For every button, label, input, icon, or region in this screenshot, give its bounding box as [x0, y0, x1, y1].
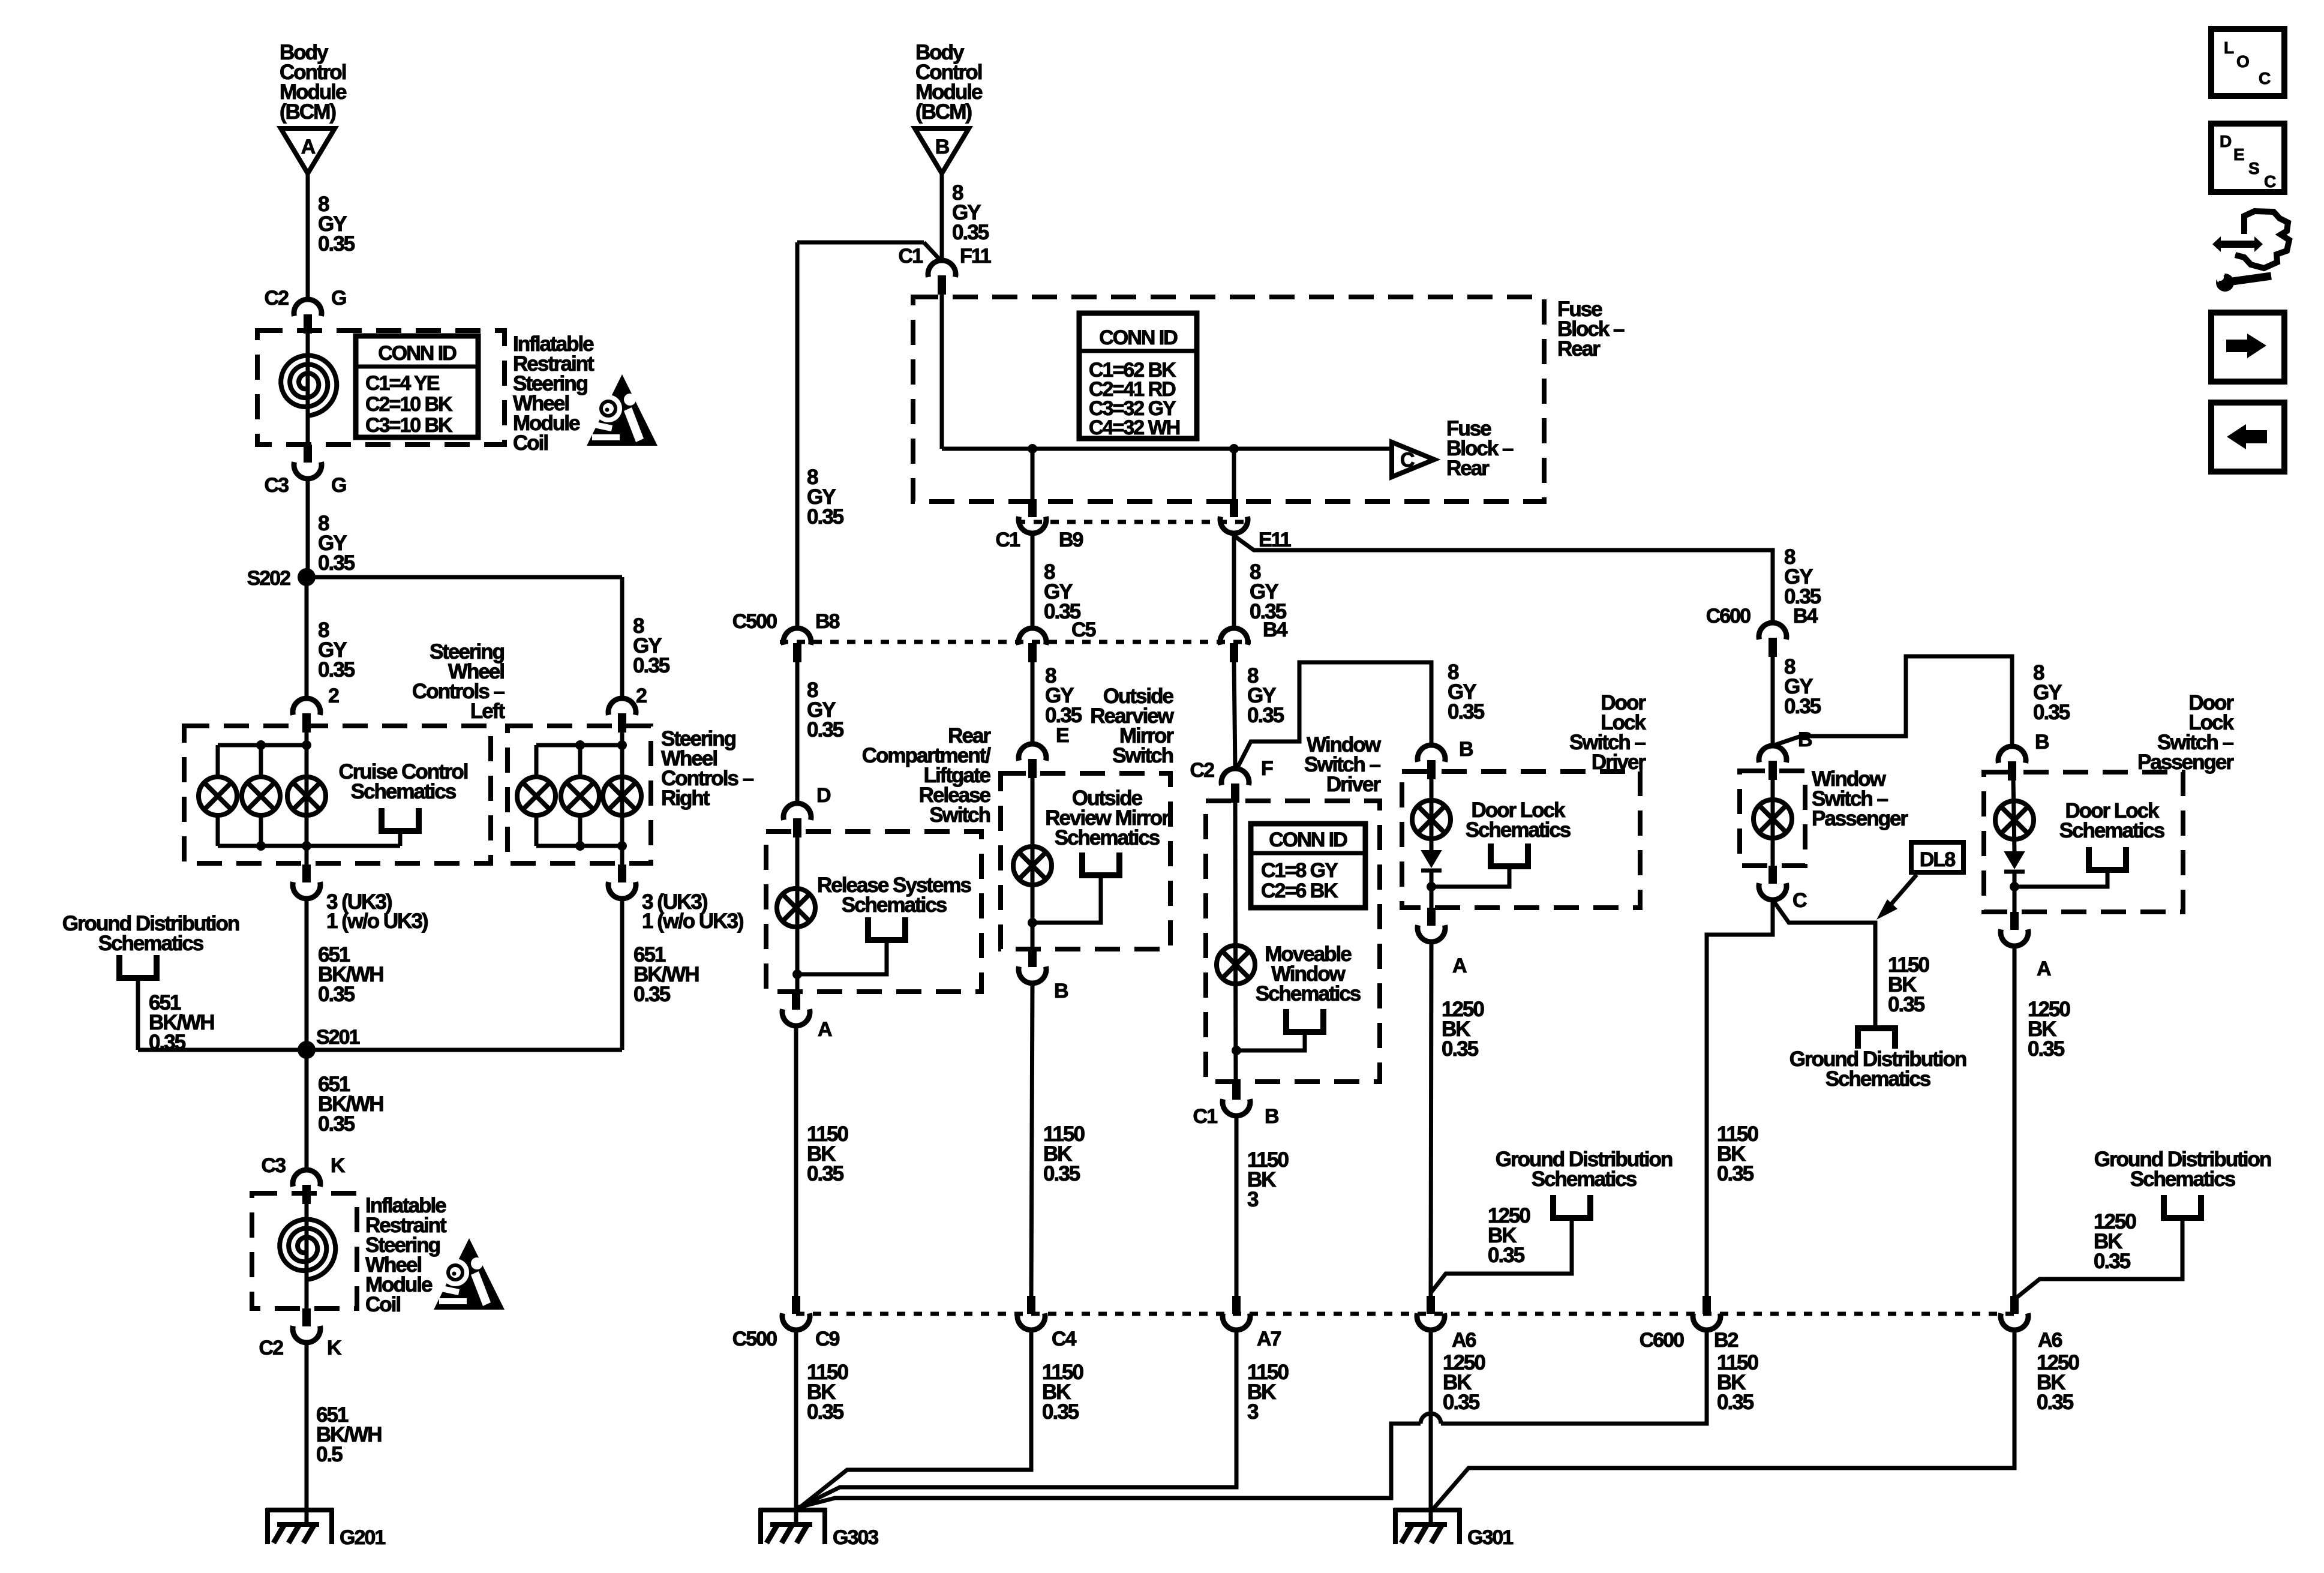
- wire B4 to B winpass: [1771, 657, 1775, 746]
- lamp SW1: [199, 777, 237, 815]
- svg-text:C1=4 YE: C1=4 YE: [365, 372, 440, 395]
- ref bracket ground mid: [1553, 1195, 1590, 1218]
- ref wire mirror: [1032, 875, 1101, 923]
- fuse block rear box: [913, 297, 1544, 502]
- svg-text:0.35: 0.35: [1043, 1162, 1080, 1185]
- connector C1 B9 (exit): [1028, 499, 1037, 517]
- svg-text:1 (w/o UK3): 1 (w/o UK3): [326, 909, 428, 933]
- icon LOC box: [2211, 29, 2284, 96]
- svg-text:0.35: 0.35: [318, 232, 355, 256]
- svg-text:S201: S201: [316, 1026, 359, 1049]
- svg-text:0.35: 0.35: [1442, 1037, 1479, 1061]
- wire ground ref down: [136, 978, 140, 1050]
- lamp door lock driver: [1412, 800, 1451, 839]
- connector C500 C9 (exit): [792, 1296, 800, 1314]
- svg-text:C2=10 BK: C2=10 BK: [365, 393, 453, 416]
- ground G201: [266, 1508, 334, 1512]
- window switch driver feed Z wire: [1236, 662, 1431, 770]
- door lock passenger box: [1984, 772, 2183, 912]
- lamp window switch passenger: [1753, 800, 1792, 838]
- clockspring coil symbol 2: [280, 1219, 335, 1280]
- airbag warning icon: [587, 374, 657, 446]
- wire S201 down: [305, 1050, 309, 1170]
- ref wire ground right: [2015, 1218, 2182, 1299]
- svg-text:S: S: [2248, 159, 2259, 178]
- svg-text:Rear: Rear: [1446, 457, 1490, 480]
- ref wire release: [797, 940, 887, 974]
- CONN ID table (fuse block): [1079, 313, 1197, 439]
- connector A DLP (exit): [2010, 912, 2019, 930]
- callout DL8 arrow: [1890, 875, 1917, 906]
- svg-text:C1: C1: [996, 529, 1020, 551]
- icon wrench: [2216, 274, 2234, 292]
- connector C3 (exit): [304, 445, 312, 463]
- wire branch to C500: [797, 241, 924, 245]
- svg-text:F11: F11: [960, 245, 991, 268]
- svg-text:B8: B8: [815, 610, 840, 633]
- svg-text:0.35: 0.35: [807, 718, 844, 742]
- svg-text:1 (w/o UK3): 1 (w/o UK3): [642, 909, 743, 933]
- ground G303: [759, 1508, 827, 1512]
- wire A7 to G303: [798, 1328, 1236, 1508]
- svg-text:C4=32 WH: C4=32 WH: [1089, 416, 1180, 439]
- svg-text:G: G: [331, 287, 346, 310]
- lamp mirror switch: [1013, 846, 1052, 885]
- svg-text:B: B: [1054, 980, 1068, 1002]
- svg-text:CONN ID: CONN ID: [378, 342, 457, 365]
- CONN ID table (coil): [356, 336, 478, 437]
- connector F (entry): [1221, 769, 1249, 785]
- wire to G201: [305, 1343, 309, 1525]
- svg-text:Schematics: Schematics: [1466, 818, 1571, 842]
- svg-text:F: F: [1261, 757, 1273, 780]
- wire through right box: [620, 733, 624, 864]
- svg-text:A6: A6: [1452, 1329, 1476, 1352]
- svg-text:0.35: 0.35: [318, 983, 355, 1006]
- steering wheel controls right box: [508, 726, 651, 863]
- wire B4 to F: [1234, 662, 1235, 769]
- svg-text:0.35: 0.35: [318, 1112, 355, 1136]
- connector A DLD (exit): [1427, 908, 1436, 926]
- wire B9 to C5: [1031, 533, 1035, 629]
- svg-text:0.35: 0.35: [2037, 1391, 2074, 1414]
- lamp door lock passenger: [1995, 801, 2034, 839]
- svg-text:0.35: 0.35: [1717, 1391, 1754, 1414]
- connector A release (exit): [792, 992, 800, 1010]
- connector row C1 rear: [1017, 520, 1251, 524]
- CONN ID table (window switch driver): [1251, 824, 1365, 908]
- connector B winpass (entry): [1759, 746, 1786, 763]
- bottom stubs: [216, 815, 220, 846]
- svg-text:CONN ID: CONN ID: [1099, 326, 1178, 349]
- svg-text:C600: C600: [1706, 605, 1750, 628]
- svg-text:Schematics: Schematics: [1256, 982, 1361, 1005]
- wire through MW box: [1235, 803, 1236, 1082]
- svg-text:B: B: [1798, 728, 1812, 751]
- svg-text:G201: G201: [340, 1526, 385, 1549]
- svg-text:Schematics: Schematics: [1532, 1167, 1637, 1191]
- svg-text:C2: C2: [265, 287, 289, 310]
- connector C winpass (exit): [1768, 866, 1777, 884]
- svg-text:0.35: 0.35: [1488, 1244, 1525, 1267]
- connector row C500/C600 bottom: [796, 1312, 2014, 1316]
- svg-text:O: O: [2236, 52, 2249, 71]
- svg-text:B4: B4: [1793, 605, 1818, 628]
- lamp SW3: [287, 777, 326, 815]
- svg-text:C2=6 BK: C2=6 BK: [1261, 879, 1338, 902]
- airbag warning icon 2: [434, 1238, 505, 1310]
- lamp SWR2: [561, 777, 599, 815]
- connector C2 K (exit): [302, 1308, 311, 1326]
- wire E11 branch right: [1234, 536, 1773, 624]
- wire C9 to G303: [794, 1328, 798, 1525]
- svg-text:Coil: Coil: [365, 1293, 400, 1316]
- svg-text:G303: G303: [833, 1526, 878, 1549]
- ref bracket ground right: [2164, 1195, 2201, 1218]
- wire B to C4: [1031, 983, 1032, 1296]
- drop to B9: [1031, 449, 1035, 500]
- wire to S201: [305, 899, 309, 1050]
- bottom bus right box: [536, 844, 622, 848]
- svg-text:Schematics: Schematics: [2059, 819, 2165, 842]
- off-page triangle B (BCM): [915, 128, 969, 173]
- wire B to C1: [940, 173, 944, 260]
- callout DL8 box: [1911, 842, 1963, 872]
- svg-text:E11: E11: [1259, 529, 1291, 551]
- svg-text:C2: C2: [1190, 759, 1215, 782]
- svg-text:0.35: 0.35: [1042, 1400, 1079, 1424]
- wire A to A6 right: [2013, 946, 2017, 1297]
- wire S202 down left: [305, 577, 309, 698]
- connector A6 right (exit): [2010, 1296, 2019, 1314]
- svg-text:C: C: [2264, 172, 2276, 191]
- connector A6 left (exit): [1427, 1296, 1435, 1314]
- connector pin 2 right (entry): [608, 698, 636, 715]
- svg-text:B: B: [1459, 738, 1473, 761]
- top bus right box: [536, 743, 622, 748]
- SIR coil module box: [257, 331, 505, 445]
- wire E11 down to B4: [1232, 533, 1236, 629]
- svg-text:C2: C2: [259, 1337, 284, 1359]
- svg-text:Schematics: Schematics: [351, 780, 457, 803]
- connector pin 2 left (entry): [293, 698, 320, 715]
- connector B DLD (entry): [1418, 745, 1445, 762]
- wire through coil: [306, 334, 310, 445]
- off-page triangle C fuse block: [1392, 442, 1434, 477]
- svg-text:Passenger: Passenger: [1812, 807, 1908, 830]
- svg-text:C3: C3: [265, 474, 289, 497]
- svg-text:S202: S202: [247, 567, 290, 590]
- svg-text:DL8: DL8: [1920, 848, 1955, 871]
- connector pin 3 left (exit): [302, 864, 311, 882]
- svg-text:(BCM): (BCM): [915, 100, 971, 124]
- connector C500 B8 (entry): [783, 628, 811, 645]
- connector C600 B2 (exit): [1703, 1296, 1711, 1314]
- wire A to A6: [1431, 942, 1431, 1297]
- svg-text:A: A: [818, 1018, 832, 1041]
- svg-text:A6: A6: [2038, 1329, 2062, 1352]
- connector C600 B4 (entry): [1759, 623, 1786, 640]
- svg-text:D: D: [816, 784, 831, 807]
- release systems box: [766, 831, 981, 992]
- connector C2 (entry): [294, 299, 322, 316]
- svg-text:C500: C500: [732, 1328, 777, 1350]
- svg-text:C600: C600: [1640, 1329, 1684, 1352]
- svg-text:0.35: 0.35: [318, 551, 355, 575]
- svg-text:Schematics: Schematics: [2130, 1167, 2236, 1191]
- svg-text:C5: C5: [1071, 619, 1096, 641]
- svg-text:B2: B2: [1714, 1329, 1739, 1352]
- svg-text:E: E: [2233, 145, 2244, 164]
- window switch passenger box: [1740, 771, 1805, 866]
- svg-text:(BCM): (BCM): [280, 100, 335, 124]
- connector B4 (entry): [1220, 628, 1248, 645]
- ref bracket MW: [1286, 1009, 1323, 1032]
- riser to bracket: [398, 831, 403, 846]
- wire through release box: [795, 837, 800, 992]
- svg-text:0.35: 0.35: [1247, 704, 1284, 727]
- bottom stubs right: [535, 815, 539, 846]
- svg-text:0.35: 0.35: [318, 658, 355, 682]
- wire A6 left to G301: [1429, 1328, 1433, 1525]
- ref bracket ground left: [119, 955, 157, 978]
- svg-text:Coil: Coil: [513, 431, 548, 455]
- wire through winpass box: [1771, 780, 1775, 866]
- outside mirror box: [1001, 773, 1170, 949]
- wire diode to exit DLP: [2013, 872, 2017, 912]
- door lock driver box: [1402, 772, 1640, 908]
- icon DESC box: [2211, 124, 2284, 192]
- SIR coil module box 2: [252, 1193, 357, 1308]
- lamp SW2: [242, 777, 280, 815]
- icon connector wrench: [2235, 211, 2289, 268]
- svg-text:C3: C3: [262, 1154, 286, 1177]
- svg-text:C1: C1: [1193, 1105, 1218, 1128]
- svg-text:0.35: 0.35: [633, 654, 670, 677]
- svg-text:B9: B9: [1059, 529, 1083, 551]
- svg-text:C9: C9: [815, 1328, 840, 1350]
- connector B mirror (exit): [1028, 949, 1037, 967]
- bottom bus left box: [218, 844, 400, 848]
- svg-text:0.35: 0.35: [2094, 1250, 2131, 1273]
- connector C4 (exit): [1027, 1296, 1035, 1314]
- svg-text:0.35: 0.35: [1443, 1391, 1480, 1414]
- svg-text:0.35: 0.35: [1717, 1162, 1754, 1185]
- connector C3 K (entry): [293, 1170, 320, 1187]
- svg-text:B4: B4: [1263, 619, 1288, 641]
- svg-text:B: B: [935, 136, 950, 158]
- wire S202 branch right: [307, 575, 622, 580]
- diode door lock passenger: [2005, 852, 2024, 868]
- svg-text:A: A: [301, 136, 316, 158]
- svg-text:E: E: [1056, 724, 1069, 747]
- ref wire DLP: [2014, 870, 2107, 887]
- off-page triangle A (BCM): [281, 128, 335, 173]
- lamp SWR1: [517, 777, 556, 815]
- svg-text:2: 2: [636, 685, 647, 707]
- connector B DLP (entry): [1998, 746, 2026, 763]
- svg-text:0.5: 0.5: [316, 1443, 343, 1466]
- svg-text:0.35: 0.35: [2028, 1037, 2065, 1061]
- connector E (entry): [1019, 744, 1046, 761]
- wire through mirror box: [1031, 778, 1035, 949]
- svg-text:CONN ID: CONN ID: [1269, 828, 1347, 851]
- svg-text:C4: C4: [1052, 1328, 1077, 1350]
- connector pin 3 right (exit): [618, 864, 626, 882]
- svg-text:Schematics: Schematics: [98, 932, 204, 955]
- svg-text:G: G: [331, 474, 346, 497]
- lamp moveable window: [1217, 945, 1255, 984]
- junction dots top: [256, 740, 266, 750]
- svg-text:C: C: [2259, 69, 2271, 88]
- svg-text:0.35: 0.35: [1448, 700, 1485, 724]
- svg-text:0.35: 0.35: [1888, 993, 1925, 1016]
- top bus left box: [218, 743, 307, 748]
- connector E11 (exit): [1230, 499, 1238, 517]
- clockspring coil symbol: [281, 355, 337, 416]
- svg-text:Rear: Rear: [1557, 337, 1601, 361]
- svg-text:C500: C500: [732, 610, 777, 633]
- feed to door lock passenger: [1773, 656, 2012, 746]
- wire BCM branch down to B8: [795, 242, 800, 629]
- icon arrow left box: [2211, 403, 2284, 472]
- svg-text:C: C: [1792, 889, 1807, 912]
- ground G301: [1394, 1508, 1461, 1512]
- ref wire MW: [1236, 1032, 1305, 1050]
- svg-text:B: B: [1265, 1105, 1279, 1128]
- svg-text:Switch: Switch: [1112, 744, 1173, 767]
- wire B to A7: [1235, 1116, 1239, 1296]
- wire C branch to ground ref: [1773, 900, 1875, 1027]
- svg-text:G301: G301: [1467, 1526, 1513, 1549]
- svg-text:3: 3: [1247, 1188, 1259, 1211]
- ref bracket DLD: [1491, 843, 1528, 866]
- icon arrow right box: [2211, 313, 2284, 382]
- svg-text:A7: A7: [1257, 1328, 1281, 1350]
- svg-text:L: L: [2224, 38, 2234, 57]
- ref bracket mirror: [1082, 852, 1119, 875]
- wire A to C2: [306, 173, 310, 299]
- svg-text:C1: C1: [899, 245, 923, 268]
- svg-text:K: K: [327, 1337, 342, 1359]
- svg-text:A: A: [1452, 954, 1467, 977]
- svg-text:C: C: [1400, 449, 1415, 472]
- ref bracket release: [868, 917, 905, 940]
- wire through DLP box: [2013, 779, 2014, 852]
- ref bracket DLP: [2089, 847, 2126, 870]
- fuse block bus: [942, 447, 1392, 451]
- svg-text:Right: Right: [661, 786, 710, 810]
- wire diode to exit: [1430, 870, 1434, 908]
- icon double arrow: [2212, 236, 2263, 252]
- svg-text:Switch: Switch: [929, 803, 990, 827]
- svg-text:Schematics: Schematics: [1055, 826, 1160, 849]
- ref bracket cruise: [382, 808, 419, 831]
- ref wire ground mid: [1431, 1218, 1572, 1293]
- connector A7 (exit): [1232, 1296, 1241, 1314]
- wire B8 to D: [795, 662, 800, 803]
- lamp release switch: [777, 888, 815, 927]
- svg-text:C1=8 GY: C1=8 GY: [1261, 859, 1338, 882]
- svg-text:K: K: [331, 1154, 346, 1177]
- svg-text:0.35: 0.35: [952, 221, 989, 244]
- lamp SWR3: [603, 777, 641, 815]
- wire C4 to G303: [800, 1328, 1031, 1508]
- svg-text:A: A: [2037, 957, 2051, 980]
- wire F11 down to bus: [940, 295, 944, 449]
- svg-text:3: 3: [1247, 1400, 1259, 1424]
- ref bracket DL8 ground: [1858, 1028, 1895, 1049]
- connector D (entry): [783, 803, 811, 820]
- wire C5 to E: [1031, 662, 1035, 744]
- svg-text:Driver: Driver: [1326, 773, 1382, 796]
- svg-text:0.35: 0.35: [807, 1162, 844, 1185]
- svg-text:0.35: 0.35: [807, 505, 844, 529]
- wire C down jog to B2 column: [1707, 900, 1773, 1297]
- connector C1 F11 (entry): [928, 260, 956, 277]
- connector C5 (entry): [1019, 628, 1046, 645]
- moveable window box: [1206, 801, 1380, 1082]
- svg-text:2: 2: [328, 685, 339, 707]
- svg-text:C3=10 BK: C3=10 BK: [365, 414, 453, 437]
- wire A to C9: [794, 1026, 798, 1296]
- connector row C500/B8 C5 B4: [780, 640, 1251, 644]
- wire A6 right to G301: [1434, 1328, 2014, 1508]
- ref wire DLD: [1431, 866, 1509, 887]
- wire through left box: [305, 733, 309, 864]
- svg-text:D: D: [2220, 132, 2232, 151]
- diode door lock driver: [1422, 851, 1441, 867]
- svg-text:Schematics: Schematics: [842, 893, 947, 917]
- connector C1 B below MW (exit): [1232, 1082, 1241, 1100]
- svg-text:Schematics: Schematics: [1825, 1067, 1931, 1091]
- svg-text:0.35: 0.35: [807, 1400, 844, 1424]
- wire through DLD box: [1430, 778, 1434, 851]
- svg-text:0.35: 0.35: [2033, 701, 2070, 724]
- svg-text:B: B: [2035, 731, 2049, 754]
- wire C3 to S202: [306, 479, 310, 577]
- svg-text:0.35: 0.35: [633, 983, 671, 1006]
- svg-text:0.35: 0.35: [1784, 695, 1821, 718]
- wire B2 to G303: [1441, 1328, 1707, 1424]
- svg-text:Left: Left: [470, 700, 506, 723]
- drop to E11: [1232, 449, 1236, 500]
- steering wheel controls left box: [184, 726, 491, 863]
